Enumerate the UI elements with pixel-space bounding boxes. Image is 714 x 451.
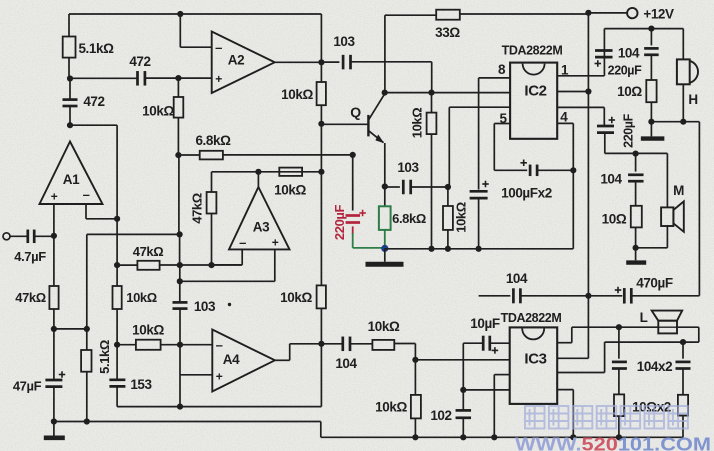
wire ground bus — [385, 248, 574, 250]
node gbus 478 — [476, 246, 482, 252]
svg-text:10µF: 10µF — [470, 316, 500, 331]
svg-text:47kΩ: 47kΩ — [133, 244, 164, 259]
wire L feed — [572, 326, 659, 328]
label L — [640, 310, 648, 325]
label pin4 — [560, 110, 568, 125]
label 6.8k ann — [392, 211, 426, 226]
wire y171 left — [212, 171, 322, 173]
earphone H — [677, 29, 698, 122]
svg-text:104: 104 — [335, 356, 357, 371]
svg-text:M: M — [673, 183, 684, 198]
wire IC2 pin2 — [557, 91, 588, 93]
svg-text:47µF: 47µF — [13, 379, 42, 394]
label 6.8k h — [195, 133, 231, 148]
label 472 v — [83, 94, 104, 109]
capacitor C 103 em — [403, 180, 448, 195]
capacitor C 470uF — [588, 287, 699, 304]
node zobel2 top — [680, 339, 686, 345]
svg-text:153: 153 — [130, 377, 152, 392]
svg-text:10kΩ: 10kΩ — [126, 290, 157, 305]
capacitor C 47uF — [45, 329, 65, 422]
node A1+ input — [51, 233, 57, 239]
resistor R 10k base-div — [427, 93, 437, 249]
node gbus 431 — [428, 246, 434, 252]
svg-text:L: L — [640, 310, 648, 325]
svg-text:472: 472 — [129, 54, 150, 69]
label 100uFx2 — [501, 186, 552, 201]
wire A2 minus drop — [177, 11, 212, 47]
svg-text:47kΩ: 47kΩ — [190, 193, 205, 224]
svg-text:10kΩ: 10kΩ — [142, 104, 174, 119]
wire collector to IC2 — [385, 92, 510, 94]
resistor R 47k a3 vertical — [207, 172, 217, 265]
node gnd-left — [51, 418, 57, 436]
resistor R 10k ic3g — [411, 360, 421, 438]
svg-text:+12V: +12V — [643, 7, 674, 22]
wire green link — [353, 233, 385, 248]
node A2 plus tap — [175, 75, 181, 81]
svg-text:104: 104 — [506, 271, 528, 286]
label 220uF top — [608, 64, 642, 78]
label 33ohm — [435, 25, 460, 40]
svg-text:6.8kΩ: 6.8kΩ — [392, 211, 426, 226]
capacitor C 102 — [456, 390, 472, 437]
label 103 a2 — [333, 34, 355, 49]
ground G4 — [626, 260, 646, 264]
svg-text:IC3: IC3 — [524, 351, 546, 368]
svg-text:10kΩ: 10kΩ — [132, 323, 164, 338]
svg-text:100µFx2: 100µFx2 — [501, 186, 552, 201]
node a3minus — [208, 262, 214, 268]
capacitor C 10uF — [463, 336, 509, 390]
label 10k a4in — [132, 323, 164, 338]
node gbus 448 — [445, 246, 451, 252]
transistor Q1 — [368, 94, 384, 187]
svg-text:472: 472 — [83, 94, 104, 109]
label 153 — [130, 377, 152, 392]
watermark row1 pseudo CJK — [525, 406, 688, 429]
resistor R 10k a4out — [372, 340, 415, 360]
node A4 out — [318, 341, 324, 347]
node A1 output — [67, 122, 117, 128]
speaker M — [636, 153, 684, 247]
label +12V — [643, 7, 674, 22]
svg-text:10kΩ: 10kΩ — [280, 290, 312, 305]
wire top feedback rail — [69, 13, 321, 15]
wire IC3 pin3 — [557, 342, 604, 372]
wire y234 link — [87, 233, 180, 235]
resistor R 10ohm h — [646, 80, 656, 122]
resistor R 6.8k annotated — [379, 187, 391, 248]
ground G1 — [44, 435, 65, 440]
capacitor C 104 m — [628, 154, 644, 206]
label 102 — [430, 408, 451, 423]
op-amp A1 — [40, 142, 103, 205]
svg-text:33Ω: 33Ω — [435, 25, 460, 40]
IC3 TDA2822M box — [510, 327, 558, 404]
wire fb to 47k wire — [116, 219, 118, 265]
node 472 junction — [67, 75, 137, 81]
node A2 out — [318, 59, 324, 65]
label 103 col — [194, 299, 231, 314]
svg-text:5: 5 — [499, 111, 507, 126]
label 10k rot1 — [410, 108, 425, 139]
wire h-rail — [604, 28, 683, 30]
svg-text:A4: A4 — [223, 352, 240, 367]
svg-text:+: + — [51, 190, 58, 204]
label 10k a3 — [274, 183, 306, 198]
node 5.1k top — [84, 326, 90, 332]
label 47k left — [15, 290, 46, 305]
node vcc pin2 — [585, 88, 591, 94]
svg-text:TDA2822M: TDA2822M — [501, 311, 562, 325]
wire A3 plus — [180, 249, 275, 281]
label 10k col — [142, 104, 174, 119]
node A1 fb — [114, 216, 120, 222]
label 10k a2out — [281, 87, 313, 102]
svg-text:103: 103 — [397, 160, 419, 175]
svg-text:220µF: 220µF — [608, 64, 642, 78]
label 5.1k rot — [97, 340, 112, 374]
node L 104x2 — [616, 324, 622, 330]
svg-text:10kΩ: 10kΩ — [410, 108, 425, 139]
IC2 TDA2822M box — [510, 63, 557, 139]
svg-text:+: + — [272, 236, 279, 250]
svg-text:10kΩ: 10kΩ — [274, 183, 306, 198]
label 220uF red rot — [332, 204, 347, 240]
wire A1 fb down — [116, 125, 118, 219]
label M — [673, 183, 684, 198]
label C1 4.7uF — [14, 249, 46, 264]
svg-text:–: – — [216, 338, 223, 353]
label 104 top — [618, 46, 640, 61]
svg-text:10kΩ: 10kΩ — [375, 400, 407, 415]
node rail 463 — [460, 434, 466, 440]
capacitor C 220uF top — [595, 29, 613, 67]
svg-text:220µF: 220µF — [622, 113, 636, 147]
node Q base junction — [318, 121, 368, 127]
node gnd-rail-2 — [84, 418, 90, 424]
svg-text:H: H — [688, 92, 697, 107]
wire A1 plus riser — [53, 204, 55, 236]
label 47uF — [13, 379, 42, 394]
node rail 494 — [491, 434, 497, 440]
svg-text:A1: A1 — [63, 172, 80, 187]
svg-text:–: – — [239, 235, 246, 250]
node 6k8 tap — [175, 152, 181, 234]
node mid y171 — [318, 169, 324, 175]
op-amp A3 — [229, 172, 290, 250]
svg-text:8: 8 — [498, 62, 506, 77]
svg-text:10Ω: 10Ω — [602, 212, 627, 227]
wire a4out fb down — [320, 344, 322, 407]
label 10k rot2 — [454, 202, 469, 233]
resistor R 10k a4in — [117, 340, 212, 350]
resistor R 10ohmx2 b — [678, 395, 688, 438]
capacitor C 104x2 a — [612, 327, 627, 394]
svg-text:10Ωx2: 10Ωx2 — [632, 400, 671, 415]
capacitor C 100uFx2 a — [470, 181, 489, 249]
svg-text:103: 103 — [194, 299, 216, 314]
wire IC2 pin1 up — [557, 51, 604, 76]
svg-text:6.8kΩ: 6.8kΩ — [195, 133, 231, 148]
label 10k fbv — [126, 290, 157, 305]
node col-divider — [428, 90, 434, 96]
wire A2 out — [275, 61, 322, 63]
label 104 supply — [506, 271, 528, 286]
node rail 619 — [616, 434, 622, 440]
capacitor C 104 a4 — [321, 337, 372, 352]
wire A3 minus — [212, 249, 243, 264]
node y265 tap — [177, 262, 183, 281]
resistor R 10ohm m — [631, 206, 642, 248]
label 104x2 — [637, 359, 673, 374]
wire y406 fb — [117, 406, 321, 408]
resistor R 10k col — [174, 97, 184, 155]
node h-bottom — [680, 119, 686, 125]
node h gnd — [648, 119, 654, 137]
label 104 a4 — [335, 356, 357, 371]
resistor R 10ohmx2 a — [614, 394, 624, 437]
node ic3 in — [412, 357, 509, 363]
label 472 h — [129, 54, 150, 69]
node supply-mid — [585, 293, 591, 299]
resistor R 5.1k top — [63, 14, 76, 79]
node em-div — [445, 184, 451, 190]
wire bias riser x87 — [86, 234, 88, 329]
node 47k-h left — [114, 262, 120, 268]
node 6k8 wire end — [350, 152, 356, 158]
node 10k-a4 tap — [177, 342, 183, 407]
node h-rail 104 — [648, 26, 654, 32]
wire ic3 gnd riser — [494, 375, 509, 438]
svg-text:4: 4 — [560, 110, 568, 125]
label Q1 — [350, 104, 361, 120]
capacitor C 103 col — [173, 302, 188, 344]
svg-text:–: – — [83, 187, 90, 202]
wire IC3 pin4 — [557, 390, 573, 438]
svg-text:5.1kΩ: 5.1kΩ — [97, 340, 112, 374]
speaker L — [652, 311, 683, 334]
label TDA2822M top — [502, 44, 563, 58]
label H — [688, 92, 697, 107]
label 47k h — [133, 244, 164, 259]
wire right edge drop — [698, 122, 700, 296]
wire A4 out — [275, 344, 322, 361]
svg-text:IC2: IC2 — [524, 83, 546, 100]
node m-feed 104 — [633, 151, 639, 157]
label 10ohm m — [602, 212, 627, 227]
svg-text:10kΩ: 10kΩ — [368, 319, 400, 334]
svg-text:4.7µF: 4.7µF — [14, 249, 46, 264]
wire pin5 loop — [494, 124, 527, 171]
label 104 m — [600, 172, 622, 187]
capacitor C 153 — [109, 345, 125, 407]
wire supply mid — [479, 295, 511, 297]
label 47k rot — [190, 193, 205, 224]
svg-text:104x2: 104x2 — [637, 359, 673, 374]
label pin1 — [561, 63, 569, 78]
wire IC2 pin7 — [449, 107, 510, 187]
node y406 tap — [177, 404, 183, 410]
capacitor C 103 a2 — [321, 55, 431, 93]
node A3plus tap — [177, 278, 183, 303]
node rail 573 — [570, 434, 576, 440]
wire emitter out — [385, 186, 400, 188]
wire a2plus column — [177, 78, 179, 97]
svg-text:WWW.520101.COM: WWW.520101.COM — [515, 434, 711, 451]
wire bottom rail — [54, 422, 683, 438]
resistor R 10k mid vertical — [317, 124, 326, 344]
svg-text:103: 103 — [333, 34, 355, 49]
label 10uF — [470, 316, 500, 331]
label 10k midv — [280, 290, 312, 305]
wire IC2 pin3 down — [557, 107, 604, 125]
svg-text:5.1kΩ: 5.1kΩ — [78, 41, 114, 56]
resistor R 5.1k vertical — [81, 329, 91, 422]
resistor R 10k a2out — [317, 62, 326, 124]
wire A2 fb up — [320, 14, 322, 62]
capacitor C1 4.7uF — [28, 230, 54, 244]
label 10k a4out — [368, 319, 400, 334]
svg-text:47kΩ: 47kΩ — [15, 290, 46, 305]
resistor R 33ohm — [436, 10, 588, 20]
svg-text:104: 104 — [618, 46, 640, 61]
wire m-feed — [605, 152, 668, 154]
op-amp A2 — [212, 32, 275, 94]
node emitter — [382, 183, 388, 189]
wire L right — [605, 327, 699, 342]
capacitor C 472 vertical — [63, 79, 78, 126]
wire h-bottom — [651, 121, 699, 123]
node m gnd — [633, 245, 639, 261]
resistor R 10k fb vertical — [113, 265, 122, 345]
svg-text:Q: Q — [350, 104, 361, 120]
wire IC2 pin8 — [479, 78, 511, 190]
wire A1 minus — [86, 204, 117, 219]
label 10ohm h — [617, 84, 642, 99]
label TDA2822M bottom — [501, 311, 562, 325]
resistor R 47k horizontal — [117, 261, 242, 270]
node y234 tap — [177, 231, 183, 265]
svg-text:+: + — [216, 370, 223, 384]
node Q collector — [382, 90, 388, 96]
wire IC2 pin4 drop — [557, 123, 573, 248]
label IC3 — [524, 351, 546, 368]
input terminal J1 — [3, 233, 27, 240]
wire 220uF branch black — [352, 155, 354, 211]
svg-text:A3: A3 — [253, 220, 270, 235]
wire IC3 pin1 — [557, 327, 572, 343]
capacitor C 220uF annotated red — [346, 210, 366, 234]
svg-text:10Ω: 10Ω — [617, 84, 642, 99]
label 103 em — [397, 160, 419, 175]
wire supply rail corner — [385, 15, 436, 92]
svg-text:104: 104 — [600, 172, 622, 187]
wire A4 plus — [180, 374, 212, 376]
node blue junction — [381, 245, 388, 252]
label pin8 — [498, 62, 506, 77]
ground G3 — [641, 136, 665, 140]
wire +12V rail down — [587, 13, 589, 359]
op-amp A4 — [212, 330, 275, 392]
capacitor C 104x2 b — [676, 342, 691, 395]
resistor R 47k vertical-left — [49, 236, 58, 329]
capacitor C 472 horizontal — [138, 71, 212, 86]
node pin4-100uF — [570, 167, 576, 173]
label 5.1k top — [78, 41, 114, 56]
resistor R 10k a3 — [279, 168, 302, 176]
label 10k ic3g — [375, 400, 407, 415]
svg-text:10kΩ: 10kΩ — [454, 202, 469, 233]
svg-text:470µF: 470µF — [636, 276, 673, 291]
capacitor C 100uFx2 b — [520, 160, 573, 177]
label 10ohmx2 — [632, 400, 671, 415]
capacitor C 104 h — [644, 29, 659, 80]
label 220uF rot — [622, 113, 636, 147]
node a3out junction — [255, 169, 261, 175]
node rail 415 — [412, 434, 418, 440]
svg-text:A2: A2 — [228, 53, 244, 68]
node 10k-h left — [114, 342, 120, 348]
resistor R 10k em-div — [443, 187, 453, 249]
label IC2 — [524, 83, 546, 100]
svg-text:–: – — [215, 40, 222, 55]
svg-text:+: + — [215, 72, 222, 86]
capacitor C 104 supply — [513, 288, 588, 303]
label pin5 — [499, 111, 507, 126]
node bias join — [51, 326, 87, 332]
ground G2 — [366, 248, 404, 264]
svg-text:220µF: 220µF — [332, 204, 347, 240]
label 470uF — [636, 276, 673, 291]
watermark row2 — [515, 434, 711, 451]
svg-text:102: 102 — [430, 408, 451, 423]
svg-text:TDA2822M: TDA2822M — [502, 44, 563, 58]
node 102 top — [460, 387, 510, 393]
terminal +12V — [627, 8, 637, 18]
wire IC3 pin2 — [557, 357, 588, 359]
capacitor C 220uF mid — [597, 117, 615, 154]
svg-text:10kΩ: 10kΩ — [281, 87, 313, 102]
node supply node — [585, 10, 627, 16]
resistor R 6.8k horizontal — [178, 151, 352, 160]
